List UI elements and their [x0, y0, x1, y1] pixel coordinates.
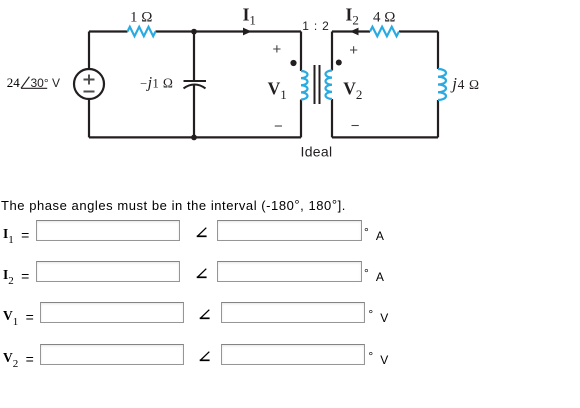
svg-text:30° V: 30° V — [31, 76, 60, 90]
input I1 angle — [217, 220, 362, 241]
transformer primary winding — [301, 71, 308, 99]
svg-text:+: + — [349, 42, 358, 59]
input I1 magnitude — [36, 220, 180, 241]
svg-text:1 : 2: 1 : 2 — [302, 19, 329, 33]
angle symbol row 3 — [199, 309, 211, 321]
instruction text — [1, 198, 346, 213]
wire: secondary loop bottom — [332, 136, 438, 138]
wire: transformer primary vertical above coil — [300, 32, 302, 72]
wire: capacitor branch upper — [193, 32, 195, 82]
inductor j4 ohm — [438, 69, 446, 100]
resistor 4 ohm — [370, 27, 399, 36]
wire: capacitor branch lower — [193, 85, 195, 138]
capacitor -j1 ohm — [184, 81, 207, 88]
transformer core — [315, 65, 320, 104]
wire: transformer primary vertical below coil — [300, 100, 302, 138]
wire: secondary vertical above coil — [331, 32, 333, 71]
svg-text:−j1 Ω: −j1 Ω — [140, 75, 173, 92]
input V2 magnitude — [40, 344, 184, 365]
wire: right vertical below inductor — [437, 100, 439, 137]
dot secondary — [336, 60, 342, 66]
transformer secondary winding — [326, 71, 333, 99]
unit row 4 — [368, 353, 388, 367]
wire: left vertical below source — [88, 99, 90, 137]
svg-text:−: − — [274, 118, 283, 135]
svg-text:4 Ω: 4 Ω — [373, 10, 395, 26]
wire: right vertical above inductor — [437, 32, 439, 70]
node dot bottom — [191, 135, 197, 141]
wire: top wire from resistor to transformer primary — [156, 30, 302, 32]
svg-text:V1: V1 — [268, 79, 287, 102]
svg-text:−: − — [351, 118, 360, 135]
svg-text:1 Ω: 1 Ω — [130, 10, 152, 26]
unit row 2 — [364, 270, 384, 284]
wire: bottom wire of primary loop — [89, 136, 301, 138]
input V2 angle — [221, 344, 365, 365]
wire: left vertical above source — [88, 32, 90, 70]
svg-text:+: + — [273, 41, 282, 58]
dot primary — [290, 60, 296, 66]
svg-text:I2: I2 — [346, 5, 359, 28]
resistor 1 ohm — [128, 27, 156, 36]
wire: secondary loop top right of resistor — [399, 30, 438, 32]
input I2 magnitude — [36, 261, 180, 282]
angle symbol row 4 — [199, 351, 211, 363]
svg-text:Ideal: Ideal — [301, 143, 333, 159]
row I1 — [3, 225, 29, 245]
input I2 angle — [217, 261, 362, 282]
row I2 — [3, 266, 29, 286]
voltage source Vs 24/30 V — [74, 69, 104, 99]
node dot top — [191, 29, 197, 35]
input V1 angle — [221, 302, 365, 323]
svg-text:V2: V2 — [343, 79, 362, 102]
wire: secondary vertical below coil — [331, 99, 333, 137]
row V1 — [3, 307, 34, 327]
svg-text:j4 Ω: j4 Ω — [450, 74, 479, 93]
angle symbol row 2 — [196, 268, 208, 280]
current arrow I2 — [350, 28, 359, 36]
unit row 3 — [368, 311, 388, 325]
wire: secondary loop top left of resistor — [332, 30, 370, 32]
row V2 — [3, 349, 34, 369]
svg-text:24: 24 — [7, 75, 21, 90]
unit row 1 — [364, 229, 384, 243]
circuit schematic — [0, 0, 520, 175]
input V1 magnitude — [40, 302, 184, 323]
current arrow I1 — [243, 28, 252, 36]
label source value 24 angle 30 V — [7, 75, 60, 90]
angle symbol row 1 — [196, 227, 208, 239]
svg-text:I1: I1 — [243, 5, 256, 28]
wire: primary loop top-left segment — [89, 30, 128, 32]
